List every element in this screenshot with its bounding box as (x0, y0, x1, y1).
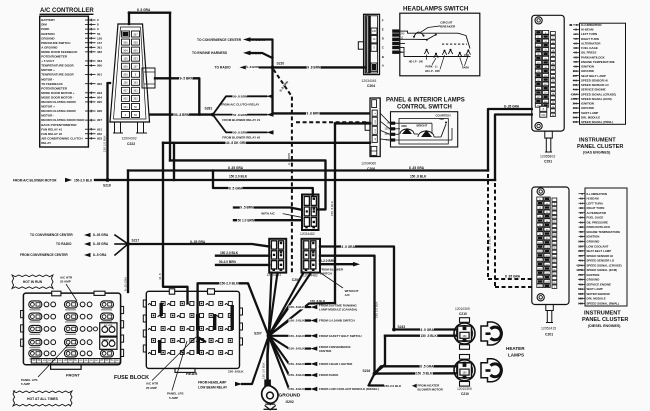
svg-text:12065803: 12065803 (540, 155, 555, 159)
svg-text:LAMP MODULE (CANADA): LAMP MODULE (CANADA) (319, 308, 357, 312)
svg-text:150 .8 BLK: 150 .8 BLK (488, 236, 492, 251)
svg-text:FROM BLOWER RELAY #2: FROM BLOWER RELAY #2 (222, 135, 260, 139)
svg-text:A GROUND: A GROUND (41, 45, 58, 49)
svg-text:RIGHT TURN: RIGHT TURN (587, 206, 605, 210)
svg-text:900: 900 (97, 64, 102, 68)
svg-text:150 .8 BLK: 150 .8 BLK (330, 201, 334, 216)
svg-text:150 2.0 BLK: 150 2.0 BLK (103, 135, 107, 152)
svg-text:150: 150 (384, 128, 389, 131)
svg-text:C291: C291 (544, 160, 552, 164)
svg-text:363: 363 (97, 59, 102, 63)
svg-text:SPEED SENSOR LO: SPEED SENSOR LO (581, 83, 609, 87)
svg-text:361: 361 (133, 89, 138, 93)
svg-text:50 1.0 BRN: 50 1.0 BRN (238, 218, 255, 222)
svg-text:50-2.0 BRN: 50-2.0 BRN (319, 259, 337, 263)
svg-text:50-2.0 BRN: 50-2.0 BRN (219, 260, 237, 264)
svg-text:9 .8 BRN: 9 .8 BRN (307, 112, 321, 116)
svg-text:8-.35 GRA: 8-.35 GRA (504, 104, 520, 108)
svg-text:150 .5 BLK: 150 .5 BLK (416, 372, 433, 376)
svg-text:8-.35 GRA: 8-.35 GRA (93, 233, 109, 237)
svg-text:926: 926 (123, 73, 128, 77)
svg-text:TO CONVENIENCE CENTER: TO CONVENIENCE CENTER (197, 38, 242, 42)
svg-text:GROUND: GROUND (587, 278, 600, 282)
svg-text:RECIRCULATING DOOR FEED: RECIRCULATING DOOR FEED (41, 118, 85, 122)
svg-text:8 .5 GRA: 8 .5 GRA (342, 245, 356, 249)
svg-text:SEAT BELT LAMP: SEAT BELT LAMP (587, 249, 612, 253)
svg-text:361: 361 (123, 105, 128, 109)
svg-text:TO FEEDBACK: TO FEEDBACK (41, 82, 63, 86)
svg-text:FROM CONVENIENCE CENTER: FROM CONVENIENCE CENTER (20, 253, 68, 257)
svg-text:MOTOR -: MOTOR - (41, 114, 54, 118)
svg-text:HEATER: HEATER (506, 346, 525, 351)
svg-text:DIM: DIM (402, 124, 408, 128)
svg-text:SPEED SENSOR HI: SPEED SENSOR HI (581, 78, 608, 82)
svg-text:150 2.0 BLK: 150 2.0 BLK (220, 251, 239, 255)
svg-text:BRIGHT: BRIGHT (417, 124, 428, 128)
svg-text:AIR CONDITIONING CLUTCH: AIR CONDITIONING CLUTCH (41, 136, 82, 140)
svg-text:150: 150 (462, 372, 467, 375)
svg-text:50-.8 BRN: 50-.8 BRN (233, 131, 247, 135)
svg-text:FROM HEADLAMP: FROM HEADLAMP (198, 381, 227, 385)
svg-text:363: 363 (133, 81, 138, 85)
svg-text:MODE DOOR FEEDBACK: MODE DOOR FEEDBACK (41, 50, 78, 54)
svg-text:ALTERNATOR: ALTERNATOR (581, 41, 601, 45)
svg-text:TEMPERATURE DOOR: TEMPERATURE DOOR (41, 73, 74, 77)
svg-text:150: 150 (123, 81, 128, 85)
svg-text:8 .5 GRA: 8 .5 GRA (229, 186, 243, 190)
svg-text:240: 240 (372, 30, 377, 33)
svg-text:951: 951 (97, 127, 102, 131)
svg-text:50 .8 BRN: 50 .8 BRN (233, 113, 247, 117)
svg-text:MOTOR +: MOTOR + (41, 68, 55, 72)
svg-text:GROUND: GROUND (581, 69, 594, 73)
svg-text:957: 957 (133, 32, 138, 36)
svg-text:PANEL & INTERIOR LAMPS: PANEL & INTERIOR LAMPS (386, 98, 465, 104)
svg-text:9-.8 BRN: 9-.8 BRN (287, 153, 291, 165)
svg-text:RIGHT TURN: RIGHT TURN (581, 37, 599, 41)
svg-text:5 AMP: 5 AMP (21, 382, 30, 386)
svg-text:905: 905 (133, 40, 138, 44)
svg-text:FROM A/C BLOWER MOTOR: FROM A/C BLOWER MOTOR (13, 179, 57, 183)
svg-text:G202: G202 (286, 400, 294, 404)
svg-text:902: 902 (123, 97, 128, 101)
svg-text:SPEED SENSOR HI: SPEED SENSOR HI (587, 254, 614, 258)
svg-text:WATER SENSOR: WATER SENSOR (587, 292, 611, 296)
svg-text:SPEED SIGNAL (PRNL): SPEED SIGNAL (PRNL) (581, 120, 613, 124)
svg-text:907: 907 (123, 89, 128, 93)
svg-text:12034061: 12034061 (362, 79, 377, 83)
svg-text:12052415: 12052415 (541, 327, 556, 331)
svg-text:50-.8 BRN: 50-.8 BRN (233, 95, 247, 99)
svg-text:LOW BEAM RELAY: LOW BEAM RELAY (198, 386, 228, 390)
svg-text:150 2.0 BLK: 150 2.0 BLK (375, 301, 379, 318)
svg-text:INSTRUMENT: INSTRUMENT (579, 138, 616, 144)
svg-text:150-.8 BLK: 150-.8 BLK (289, 362, 305, 366)
svg-text:906: 906 (123, 65, 128, 69)
svg-text:MOTOR -: MOTOR - (41, 77, 54, 81)
svg-text:FUEL GAGE: FUEL GAGE (581, 46, 598, 50)
svg-text:PARK: PARK (41, 27, 50, 31)
svg-text:240: 240 (400, 32, 405, 35)
svg-text:9-.8 BRN: 9-.8 BRN (249, 51, 262, 55)
svg-text:IGNITION: IGNITION (587, 235, 600, 239)
svg-text:150-2.0 BLK: 150-2.0 BLK (220, 282, 239, 286)
svg-text:12010309: 12010309 (455, 307, 470, 311)
svg-text:HOT IN RUN: HOT IN RUN (23, 280, 43, 284)
svg-text:902: 902 (97, 82, 102, 86)
svg-text:150 .8 BLK: 150 .8 BLK (410, 175, 427, 179)
svg-text:8-.35 GRA: 8-.35 GRA (190, 240, 206, 244)
svg-text:8 .5 GRA: 8 .5 GRA (137, 8, 151, 12)
svg-text:BLOWER MOTOR: BLOWER MOTOR (418, 388, 444, 392)
svg-text:HI BEAM: HI BEAM (587, 197, 600, 201)
svg-text:150-.8 BLK: 150-.8 BLK (228, 370, 244, 374)
svg-text:150: 150 (97, 36, 102, 40)
svg-text:906: 906 (97, 109, 102, 113)
svg-text:OFF: OFF (464, 53, 470, 57)
svg-text:OIL PRESSURE: OIL PRESSURE (587, 220, 609, 224)
svg-text:9-.8 BRN: 9-.8 BRN (252, 38, 265, 42)
svg-text:SPEED SIGNAL (RWAL): SPEED SIGNAL (RWAL) (587, 302, 620, 306)
svg-text:ALTERNATOR: ALTERNATOR (587, 211, 607, 215)
svg-text:S281: S281 (205, 106, 213, 110)
svg-text:SPEED SENSOR LO: SPEED SENSOR LO (587, 259, 615, 263)
svg-text:904: 904 (123, 48, 128, 52)
svg-text:ILLUMINATION: ILLUMINATION (581, 23, 602, 27)
svg-text:903: 903 (133, 48, 138, 52)
svg-text:A/C HTR: A/C HTR (104, 324, 113, 327)
svg-text:150-.8 BLK: 150-.8 BLK (289, 373, 305, 377)
svg-text:5 AMP: 5 AMP (169, 396, 178, 400)
svg-text:150-.8 BLK: 150-.8 BLK (289, 305, 305, 309)
svg-text:PANEL CLUSTER: PANEL CLUSTER (577, 144, 623, 150)
svg-text:903: 903 (97, 91, 102, 95)
svg-text:S216: S216 (363, 369, 371, 373)
svg-text:+ 5 VOLT: + 5 VOLT (41, 59, 54, 63)
svg-text:150 2.0 BLK: 150 2.0 BLK (229, 175, 248, 179)
svg-text:WITH A/C: WITH A/C (261, 211, 275, 215)
svg-text:HD LP - OFF: HD LP - OFF (425, 69, 441, 73)
svg-text:GROUND: GROUND (581, 106, 594, 110)
svg-text:SPEED SIGNAL (ECM): SPEED SIGNAL (ECM) (587, 268, 618, 272)
svg-text:DRL MODULE: DRL MODULE (581, 115, 600, 119)
svg-text:TO CONVENIENCE CENTER: TO CONVENIENCE CENTER (30, 233, 73, 237)
svg-text:952: 952 (97, 132, 102, 136)
svg-text:RELAY: RELAY (41, 141, 51, 145)
svg-text:C210: C210 (459, 312, 467, 316)
svg-text:E: E (382, 27, 384, 31)
svg-text:157: 157 (133, 65, 138, 69)
svg-text:FUSE BLOCK: FUSE BLOCK (114, 375, 149, 381)
svg-text:FROM LOW COOLANT MODULE (DIESE: FROM LOW COOLANT MODULE (DIESEL) (319, 387, 379, 391)
svg-text:8-.35 GRA: 8-.35 GRA (124, 277, 128, 291)
svg-text:25 AMP: 25 AMP (60, 280, 71, 284)
svg-text:IGNITION: IGNITION (41, 32, 54, 36)
svg-text:150 .8 BLK: 150 .8 BLK (310, 299, 326, 303)
svg-text:LEFT TURN: LEFT TURN (581, 32, 597, 36)
svg-text:904: 904 (97, 95, 102, 99)
svg-text:PRESSURE SWITCH: PRESSURE SWITCH (41, 41, 70, 45)
svg-text:9 .8 BRN: 9 .8 BRN (307, 66, 321, 70)
svg-text:150 .5 BLK: 150 .5 BLK (421, 334, 438, 338)
svg-text:8 .5 GRA: 8 .5 GRA (420, 364, 434, 368)
svg-text:LOW COOLANT: LOW COOLANT (587, 244, 609, 248)
svg-text:MODE DOOR MOTOR +: MODE DOOR MOTOR + (41, 91, 75, 95)
svg-text:50: 50 (97, 32, 101, 36)
svg-text:HI-BEAM: HI-BEAM (581, 28, 594, 32)
svg-text:361: 361 (97, 45, 102, 49)
svg-text:150-.8 BLK: 150-.8 BLK (289, 347, 305, 351)
svg-text:C204: C204 (367, 84, 375, 88)
svg-text:905: 905 (97, 100, 102, 104)
svg-text:PANEL LPS: PANEL LPS (167, 391, 184, 395)
svg-text:SHIFT LAMP: SHIFT LAMP (581, 111, 598, 115)
svg-text:WAIT LAMP: WAIT LAMP (587, 287, 603, 291)
svg-text:8-.35 GRA: 8-.35 GRA (93, 242, 109, 246)
svg-text:LAMPS: LAMPS (508, 352, 524, 357)
svg-text:150: 150 (123, 56, 128, 60)
svg-text:C222: C222 (127, 142, 135, 146)
svg-text:IGNITION: IGNITION (581, 65, 594, 69)
svg-text:933: 933 (133, 56, 138, 60)
svg-text:LEFT TURN: LEFT TURN (587, 201, 603, 205)
svg-text:150-.5 BLK: 150-.5 BLK (289, 319, 305, 323)
svg-text:TO RADIO: TO RADIO (215, 66, 231, 70)
svg-text:IGNITION: IGNITION (581, 102, 594, 106)
svg-text:TO RADIO: TO RADIO (56, 242, 72, 246)
svg-text:OIL PRESS: OIL PRESS (581, 51, 596, 55)
svg-text:900: 900 (123, 40, 128, 44)
svg-text:GROUND: GROUND (279, 393, 301, 399)
svg-text:362: 362 (97, 50, 102, 54)
svg-text:150-2.0 BLK: 150-2.0 BLK (384, 384, 402, 388)
svg-text:SERVICE ENGINE: SERVICE ENGINE (581, 88, 606, 92)
svg-text:FROM CIGAR LIGHTER: FROM CIGAR LIGHTER (319, 362, 353, 366)
svg-text:8-.5 GRA: 8-.5 GRA (93, 253, 107, 257)
svg-text:S207: S207 (254, 332, 262, 336)
svg-text:8 .35 GRA: 8 .35 GRA (505, 274, 521, 278)
svg-text:12034060: 12034060 (361, 161, 376, 165)
svg-text:HD LP - ON: HD LP - ON (409, 59, 423, 63)
svg-text:FROM LH JAMB SWITCH: FROM LH JAMB SWITCH (319, 319, 355, 323)
svg-text:IGNITION: IGNITION (587, 273, 600, 277)
svg-text:12004302: 12004302 (122, 137, 137, 141)
svg-text:GROUND: GROUND (41, 36, 55, 40)
svg-text:BATTERY: BATTERY (41, 18, 55, 22)
svg-text:150-.8 BLK: 150-.8 BLK (289, 387, 305, 391)
svg-text:A/C CONTROLLER: A/C CONTROLLER (40, 8, 94, 14)
svg-text:POTENTIOMETER: POTENTIOMETER (41, 86, 68, 90)
svg-text:FAN RELAY #1: FAN RELAY #1 (41, 127, 62, 131)
svg-text:CONTROL SWITCH: CONTROL SWITCH (397, 105, 452, 111)
svg-text:ON: ON (440, 117, 444, 121)
svg-text:150 3.0 BLK: 150 3.0 BLK (262, 362, 266, 379)
svg-text:PARK/ANTILOCK: PARK/ANTILOCK (587, 225, 612, 229)
svg-text:MODE DOOR MOTOR -: MODE DOOR MOTOR - (41, 95, 74, 99)
svg-text:PANEL LPS: PANEL LPS (102, 338, 114, 341)
svg-text:S243: S243 (398, 325, 406, 329)
svg-text:HEADLAMPS SWITCH: HEADLAMPS SWITCH (403, 6, 469, 13)
svg-text:PANEL CLUSTER: PANEL CLUSTER (582, 317, 628, 323)
svg-text:FAN RELAY #2: FAN RELAY #2 (41, 132, 62, 136)
svg-text:BACK POTENTIOMETER: BACK POTENTIOMETER (41, 123, 77, 127)
svg-text:REAR: REAR (186, 371, 197, 376)
svg-text:BREAKER: BREAKER (440, 24, 456, 28)
svg-text:PARK: PARK (462, 66, 469, 70)
svg-text:RECIRCULATING DOOR: RECIRCULATING DOOR (41, 100, 76, 104)
svg-text:8 .5 GRA: 8 .5 GRA (421, 328, 435, 332)
svg-text:TEMPERATURE DOOR: TEMPERATURE DOOR (41, 64, 74, 68)
svg-text:907: 907 (97, 118, 102, 122)
svg-text:SERVICE ENGINE: SERVICE ENGINE (587, 282, 612, 286)
svg-text:C210: C210 (461, 392, 469, 396)
svg-text:MOTOR +: MOTOR + (41, 105, 55, 109)
svg-text:TO ENGINE HARNESS: TO ENGINE HARNESS (192, 51, 228, 55)
svg-text:12010309: 12010309 (457, 387, 472, 391)
svg-text:150-2.0 BLK: 150-2.0 BLK (74, 179, 93, 183)
svg-text:C201: C201 (545, 333, 553, 337)
svg-text:C206: C206 (367, 167, 375, 171)
svg-text:50-.8 BRN: 50-.8 BRN (174, 113, 190, 117)
svg-text:9 .5 BRN: 9 .5 BRN (240, 206, 254, 210)
svg-text:A/C HTR: A/C HTR (146, 381, 159, 385)
svg-text:12034482: 12034482 (300, 232, 315, 236)
svg-text:S210: S210 (277, 62, 285, 66)
svg-text:150: 150 (384, 133, 389, 136)
svg-text:FUEL GAGE: FUEL GAGE (587, 216, 604, 220)
svg-text:HOT AT ALL TIMES: HOT AT ALL TIMES (27, 397, 59, 401)
svg-text:SEAT BELT LAMP: SEAT BELT LAMP (581, 74, 606, 78)
svg-text:SPEED SIGNAL (CRUISE): SPEED SIGNAL (CRUISE) (587, 263, 622, 267)
svg-text:FROM RADIO: FROM RADIO (319, 373, 339, 377)
svg-text:S218: S218 (103, 184, 111, 188)
svg-text:GROUND: GROUND (587, 240, 600, 244)
svg-text:(GAS ENGINES): (GAS ENGINES) (583, 151, 611, 155)
svg-text:FROM A/C CLUTCH RELAY: FROM A/C CLUTCH RELAY (221, 102, 260, 106)
svg-text:44 .8 DK GRN: 44 .8 DK GRN (226, 141, 247, 145)
svg-text:(DIESEL ENGINES): (DIESEL ENGINES) (588, 324, 621, 328)
svg-text:9-.5 BRN: 9-.5 BRN (180, 77, 194, 81)
svg-text:8 .35 GRA: 8 .35 GRA (228, 166, 244, 170)
svg-text:44 .8: 44 .8 (158, 273, 162, 280)
svg-text:362: 362 (133, 97, 138, 101)
svg-text:ENGINE TEMPERATURE: ENGINE TEMPERATURE (581, 60, 615, 64)
svg-text:150: 150 (541, 114, 546, 117)
svg-text:S217: S217 (132, 239, 140, 243)
svg-text:9-.8 BRN: 9-.8 BRN (246, 65, 259, 69)
svg-text:PARK/ANTILOCK: PARK/ANTILOCK (581, 55, 606, 59)
svg-text:150: 150 (462, 335, 467, 338)
svg-text:SPEED SIGNAL (ECM): SPEED SIGNAL (ECM) (581, 97, 612, 101)
svg-text:FROM SAFETY BELT SWITCH: FROM SAFETY BELT SWITCH (319, 334, 362, 338)
svg-text:ENGINE TEMPERATURE: ENGINE TEMPERATURE (587, 230, 621, 234)
svg-text:157: 157 (97, 41, 102, 45)
svg-text:FROM BLOWER RELAY #1: FROM BLOWER RELAY #1 (222, 118, 260, 122)
svg-text:150-.8 BLK: 150-.8 BLK (289, 334, 305, 338)
svg-text:POTENTIOMETER: POTENTIOMETER (41, 55, 68, 59)
svg-text:25 AMP: 25 AMP (146, 386, 157, 390)
svg-text:SPEED SIGNAL (CRUISE): SPEED SIGNAL (CRUISE) (581, 92, 616, 96)
svg-text:901: 901 (97, 73, 102, 77)
svg-text:8 .35 GRA: 8 .35 GRA (409, 166, 425, 170)
svg-text:12034481: 12034481 (267, 273, 282, 277)
svg-text:CENTER: CENTER (319, 349, 332, 353)
svg-text:ILLUMINATION: ILLUMINATION (587, 192, 608, 196)
svg-text:DIM: DIM (41, 23, 47, 27)
svg-text:PARK - ( ): PARK - ( ) (426, 65, 438, 69)
svg-text:RECIRCULATING DOOR: RECIRCULATING DOOR (41, 109, 76, 113)
svg-text:INSTRUMENT: INSTRUMENT (584, 311, 621, 317)
svg-text:A/C: A/C (345, 293, 351, 297)
svg-text:FRONT: FRONT (66, 372, 80, 377)
svg-text:F: F (382, 18, 384, 22)
svg-text:DRL MODULE: DRL MODULE (587, 297, 606, 301)
